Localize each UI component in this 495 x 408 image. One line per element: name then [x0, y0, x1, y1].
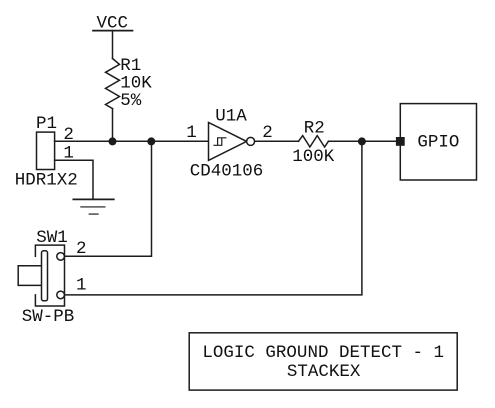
wire R1 bottom to main net	[112, 109, 114, 142]
svg-text:SW-PB: SW-PB	[22, 307, 75, 327]
resistor R1	[106, 56, 153, 111]
switch SW1	[18, 228, 74, 327]
pin number 1 of P1	[63, 143, 74, 163]
svg-text:2: 2	[63, 125, 74, 145]
junction dot at R1/main net	[109, 137, 117, 145]
svg-text:GPIO: GPIO	[417, 132, 459, 152]
wire main horizontal net P1 pin2 to U1A input	[55, 140, 208, 142]
wire SW1 pin2 to junction	[64, 141, 151, 256]
pin number 2 of P1	[63, 125, 74, 145]
wire R2 to GPIO	[328, 140, 396, 142]
connector P1	[15, 114, 78, 190]
junction dot at GPIO branch	[358, 137, 366, 145]
output bubble of U1A	[247, 137, 255, 145]
svg-text:LOGIC GROUND DETECT - 1: LOGIC GROUND DETECT - 1	[202, 343, 444, 363]
power VCC	[93, 14, 133, 59]
svg-text:100K: 100K	[292, 147, 335, 167]
svg-text:2: 2	[76, 239, 87, 259]
resistor R2	[292, 119, 335, 167]
svg-text:5%: 5%	[120, 91, 142, 111]
pin number 2 of SW1	[76, 239, 87, 259]
wire U1A output to R2	[255, 140, 299, 142]
title block	[189, 333, 457, 390]
ground	[73, 199, 114, 214]
GPIO port	[396, 104, 477, 180]
Schmitt hysteresis symbol	[214, 138, 226, 146]
svg-text:2: 2	[262, 123, 273, 143]
svg-text:1: 1	[186, 123, 197, 143]
svg-text:U1A: U1A	[215, 106, 247, 126]
pin number 1 of SW1	[76, 276, 87, 296]
svg-text:STACKEX: STACKEX	[287, 362, 361, 382]
junction dot at SW1 branch	[147, 137, 155, 145]
svg-text:1: 1	[76, 276, 87, 296]
svg-text:R2: R2	[304, 119, 325, 139]
wire junction down and left to SW1 pin1	[64, 141, 362, 295]
inverter U1A (Schmitt trigger)	[190, 106, 264, 181]
svg-text:P1: P1	[36, 114, 57, 134]
svg-text:HDR1X2: HDR1X2	[15, 170, 78, 190]
svg-text:CD40106: CD40106	[190, 161, 264, 181]
pin number 1 of U1A	[186, 123, 197, 143]
wire P1 pin1 to ground	[55, 160, 93, 199]
pin number 2 of U1A	[262, 123, 273, 143]
